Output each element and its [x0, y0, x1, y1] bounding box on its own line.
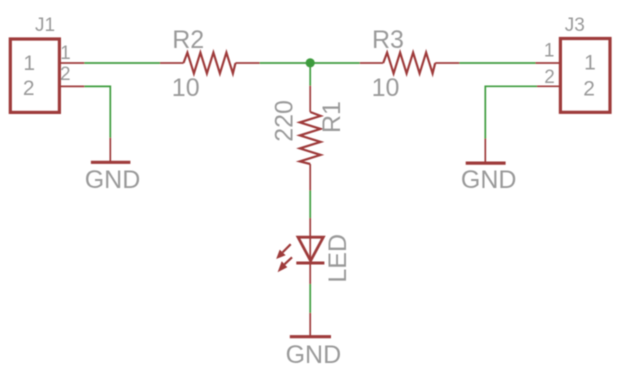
- wire R2 to R3 through node: [260, 62, 360, 64]
- LED arrow 2: [278, 257, 292, 272]
- svg-text:1: 1: [23, 52, 35, 75]
- svg-text:GND: GND: [461, 166, 517, 194]
- wire J3 pin2 to GND corner: [485, 86, 537, 138]
- node junction dot: [306, 58, 315, 67]
- svg-text:R2: R2: [172, 26, 204, 54]
- svg-text:GND: GND: [85, 166, 141, 194]
- wire LED to GND: [309, 263, 311, 284]
- wire node down to R1: [309, 63, 311, 86]
- svg-text:2: 2: [60, 64, 71, 85]
- LED D1: [309, 218, 311, 263]
- J3 pin 1 stub: [536, 62, 561, 64]
- wire R3 to J3 pin1: [459, 62, 535, 64]
- svg-text:2: 2: [544, 67, 555, 88]
- svg-text:R1: R1: [318, 101, 346, 133]
- svg-text:R3: R3: [372, 26, 404, 54]
- svg-text:10: 10: [372, 74, 400, 102]
- svg-text:1: 1: [544, 41, 555, 62]
- LED triangle: [298, 237, 323, 261]
- ground GND (bottom): [309, 313, 311, 337]
- ground GND (left): [109, 138, 111, 163]
- LED arrow 1: [276, 244, 291, 259]
- wire J1 pin2 to GND corner: [84, 86, 110, 137]
- svg-text:J3: J3: [565, 15, 585, 36]
- J1 pin 2 stub: [59, 85, 84, 87]
- svg-text:GND: GND: [286, 341, 342, 367]
- resistor R3: [360, 62, 383, 64]
- wire J1 pin1 to R2: [84, 62, 160, 64]
- connector J3: [560, 39, 610, 113]
- J1 pin 1 stub: [59, 62, 84, 64]
- svg-text:2: 2: [23, 77, 35, 100]
- svg-text:J1: J1: [35, 15, 55, 36]
- connector J1: [10, 39, 59, 112]
- svg-text:2: 2: [583, 77, 595, 100]
- svg-text:1: 1: [584, 52, 596, 75]
- LED cathode bar: [296, 262, 324, 265]
- svg-text:LED: LED: [324, 234, 352, 283]
- J3 pin 2 stub: [537, 85, 560, 87]
- svg-text:10: 10: [172, 74, 200, 102]
- resistor R1: [309, 86, 311, 112]
- svg-text:1: 1: [60, 43, 71, 64]
- wire R1 to LED: [309, 191, 311, 219]
- resistor R2: [160, 62, 184, 64]
- ground GND (right): [484, 139, 486, 164]
- svg-text:220: 220: [270, 100, 298, 142]
